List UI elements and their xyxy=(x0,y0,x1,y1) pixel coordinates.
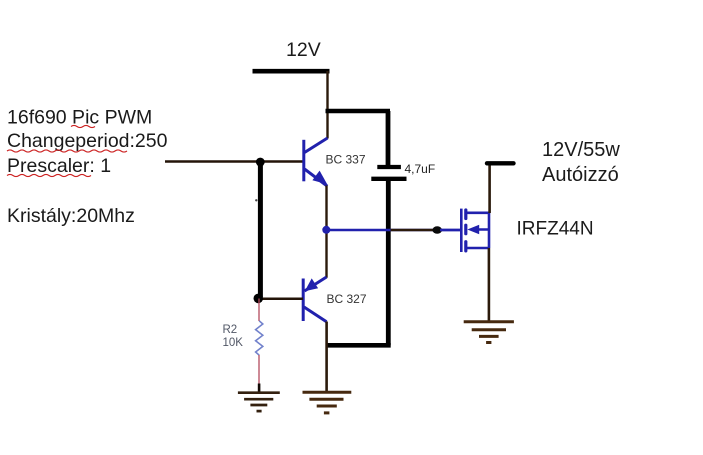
ground right (MOSFET source) xyxy=(464,322,514,343)
wire blue gate stub xyxy=(440,229,461,231)
svg-text:BC 327: BC 327 xyxy=(327,292,367,306)
wire from rail down to BC337 collector xyxy=(326,71,328,139)
wire BC327 emitter to ground xyxy=(325,322,328,392)
wire capacitor bottom lead (thick) xyxy=(386,181,391,345)
node blue junction dot xyxy=(322,226,330,234)
wire capacitor top lead xyxy=(386,111,391,166)
svg-text:12V/55w: 12V/55w xyxy=(542,139,620,161)
svg-text:Kristály:20Mhz: Kristály:20Mhz xyxy=(7,205,135,227)
transistor Q2 BC 327 xyxy=(303,277,367,322)
wire thick branch to capacitor top xyxy=(326,109,391,114)
wire red lead junction to R2 xyxy=(258,299,260,322)
svg-text:4,7uF: 4,7uF xyxy=(405,162,436,176)
node junction dot bottom xyxy=(253,294,263,304)
svg-text:IRFZ44N: IRFZ44N xyxy=(517,219,594,240)
svg-text:10K: 10K xyxy=(223,337,244,349)
svg-text:BC 337: BC 337 xyxy=(326,153,366,167)
svg-text:R2: R2 xyxy=(223,324,238,336)
node spellcheck squiggle under Prescaler: xyxy=(7,174,91,176)
capacitor C1 4,7uF xyxy=(371,162,435,179)
svg-text:12V: 12V xyxy=(286,39,321,61)
wire lamp stub (thick) xyxy=(487,161,514,165)
wire black stub above left ground xyxy=(258,384,261,393)
wire base line into BC337 xyxy=(165,160,304,162)
wire red lead R2 to ground xyxy=(258,355,260,384)
svg-text:16f690 Pic PWM: 16f690 Pic PWM xyxy=(7,107,152,129)
transistor Q1 BC 337 xyxy=(304,138,366,186)
svg-text:Autóizzó: Autóizzó xyxy=(542,164,619,186)
node annotation text block left xyxy=(7,107,168,227)
wire left vertical (base bus) xyxy=(258,161,263,297)
node blob on gate wire xyxy=(432,226,442,234)
resistor R2 10K xyxy=(223,321,263,355)
wire thick from capacitor bottom to emitter node xyxy=(326,343,391,348)
node junction dot top xyxy=(256,158,265,167)
wire brown segment after crossing xyxy=(391,229,434,231)
wire BC327 base xyxy=(258,298,303,301)
ground left (R2) xyxy=(238,393,280,411)
wire 12V rail xyxy=(253,69,330,74)
node spellcheck squiggle under Changeperiod: xyxy=(7,150,127,152)
wire blue from middle node to MOSFET gate xyxy=(327,229,461,231)
wire MOSFET source down to ground xyxy=(488,248,491,321)
node spellcheck squiggle under Pic xyxy=(71,125,95,127)
node speck artifact xyxy=(255,199,257,201)
transistor U1 MOSFET IRFZ44N xyxy=(461,209,593,252)
ground middle (emitter) xyxy=(303,392,352,413)
svg-text:Changeperiod:250: Changeperiod:250 xyxy=(7,130,168,152)
svg-text:Prescaler: 1: Prescaler: 1 xyxy=(7,155,111,177)
wire middle node vertical (BC337 emitter to BC327 collector) xyxy=(325,186,327,278)
wire MOSFET drain up xyxy=(488,164,491,213)
